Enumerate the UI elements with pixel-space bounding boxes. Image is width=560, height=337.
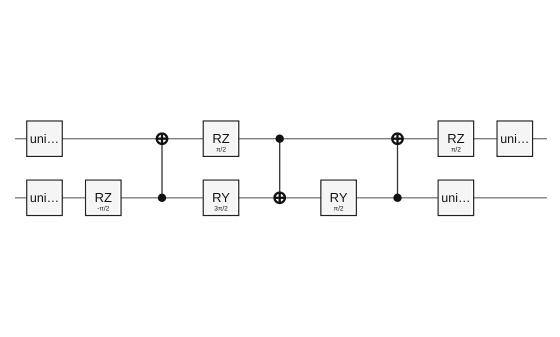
svg-text:-π/2: -π/2 bbox=[97, 206, 109, 213]
svg-text:uni…: uni… bbox=[500, 132, 529, 146]
svg-text:uni…: uni… bbox=[30, 191, 59, 205]
svg-text:RY: RY bbox=[212, 190, 230, 205]
svg-text:RZ: RZ bbox=[212, 131, 229, 146]
wire: CNOT connector column 7 bbox=[397, 139, 399, 198]
CNOT control dot on q0, column 5 bbox=[276, 135, 284, 143]
gate U1: unitary (uni...) on q0, column 1 bbox=[27, 121, 63, 156]
gate RZ(-pi/2) on q1, column 2 bbox=[86, 180, 122, 215]
wire: CNOT connector column 5 bbox=[279, 139, 281, 198]
gate U3: unitary (uni...) on q1, column 8 bbox=[438, 180, 474, 215]
CNOT control dot on q1, column 3 bbox=[158, 194, 166, 202]
wire: CNOT connector column 3 bbox=[161, 139, 163, 198]
svg-text:π/2: π/2 bbox=[451, 147, 461, 154]
svg-text:π/2: π/2 bbox=[216, 147, 226, 154]
CNOT control dot on q1, column 7 bbox=[393, 194, 401, 202]
gate U2: unitary (uni...) on q1, column 1 bbox=[27, 180, 63, 215]
wire q1 bbox=[15, 197, 547, 199]
gate U4: unitary (uni...) on q0, column 9 bbox=[497, 121, 533, 156]
svg-text:uni…: uni… bbox=[441, 191, 470, 205]
wire q0 bbox=[15, 138, 547, 140]
svg-text:RZ: RZ bbox=[447, 131, 464, 146]
svg-text:RY: RY bbox=[330, 190, 348, 205]
gate RZ(pi/2) on q0, column 4 bbox=[203, 121, 239, 156]
CNOT target on q0, column 3 bbox=[156, 133, 168, 145]
gate RY(3pi/2) on q1, column 4 bbox=[203, 180, 239, 215]
svg-text:3π/2: 3π/2 bbox=[214, 206, 228, 213]
gate RY(pi/2) on q1, column 6 bbox=[321, 180, 357, 215]
svg-text:π/2: π/2 bbox=[334, 206, 344, 213]
svg-text:RZ: RZ bbox=[95, 190, 112, 205]
gate RZ(pi/2) on q0, column 8 bbox=[438, 121, 474, 156]
CNOT target on q0, column 7 bbox=[391, 133, 403, 145]
svg-text:uni…: uni… bbox=[30, 132, 59, 146]
CNOT target on q1, column 5 bbox=[274, 192, 286, 204]
